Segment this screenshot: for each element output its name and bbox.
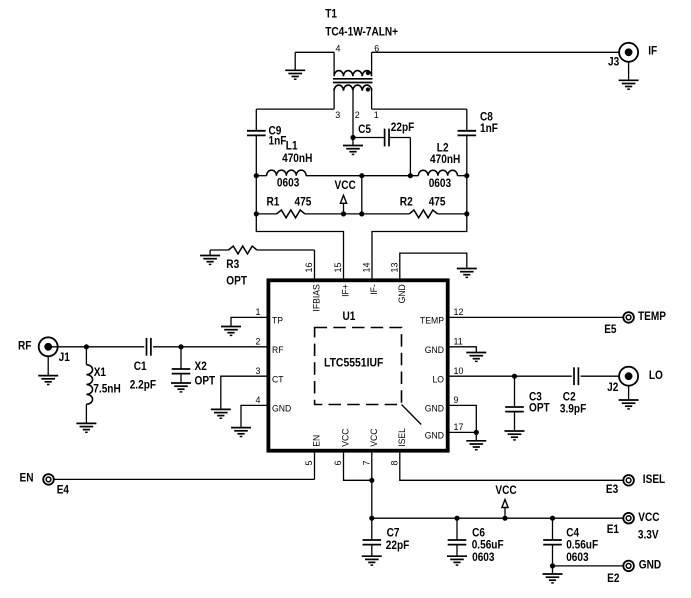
svg-text:17: 17 [454, 422, 464, 432]
svg-text:GND: GND [272, 403, 292, 413]
svg-text:OPT: OPT [195, 375, 216, 388]
svg-text:E4: E4 [57, 484, 70, 497]
svg-text:0603: 0603 [277, 177, 299, 190]
svg-text:7.5nH: 7.5nH [93, 383, 120, 396]
svg-text:C1: C1 [134, 360, 147, 373]
svg-text:475: 475 [429, 196, 446, 209]
svg-text:2.2pF: 2.2pF [130, 379, 157, 392]
svg-text:LTC5551IUF: LTC5551IUF [324, 357, 383, 370]
svg-text:X1: X1 [94, 366, 106, 379]
svg-text:16: 16 [304, 263, 314, 273]
svg-text:0603: 0603 [566, 551, 588, 564]
svg-text:VCC: VCC [638, 511, 659, 524]
svg-text:1: 1 [256, 307, 261, 317]
svg-text:L1: L1 [286, 140, 298, 153]
svg-text:0.56uF: 0.56uF [566, 539, 598, 552]
svg-text:12: 12 [454, 307, 464, 317]
svg-text:13: 13 [389, 263, 399, 273]
svg-text:6: 6 [333, 461, 343, 466]
svg-text:EN: EN [311, 435, 321, 447]
svg-text:EN: EN [20, 472, 34, 485]
svg-text:GND: GND [425, 403, 445, 413]
svg-text:OPT: OPT [529, 402, 550, 415]
svg-text:3.9pF: 3.9pF [560, 403, 587, 416]
svg-text:E5: E5 [604, 324, 616, 337]
svg-text:2: 2 [256, 336, 261, 346]
svg-text:R3: R3 [226, 258, 239, 271]
svg-text:VCC: VCC [340, 428, 350, 447]
svg-text:GND: GND [425, 430, 445, 440]
svg-text:VCC: VCC [334, 179, 355, 192]
svg-text:RF: RF [18, 340, 32, 353]
svg-text:TC4-1W-7ALN+: TC4-1W-7ALN+ [325, 26, 398, 39]
svg-text:IF: IF [648, 45, 657, 58]
svg-text:5: 5 [304, 461, 314, 466]
svg-text:X2: X2 [195, 360, 207, 373]
svg-text:E1: E1 [607, 523, 619, 536]
svg-text:LO: LO [649, 369, 663, 382]
svg-text:22pF: 22pF [386, 539, 410, 552]
svg-text:TEMP: TEMP [420, 315, 444, 325]
svg-text:IF-: IF- [369, 284, 379, 295]
svg-text:3.3V: 3.3V [638, 529, 659, 542]
svg-text:GND: GND [639, 559, 661, 572]
svg-text:LO: LO [432, 374, 444, 384]
svg-text:1nF: 1nF [480, 123, 498, 136]
svg-text:0.56uF: 0.56uF [472, 539, 504, 552]
svg-text:2: 2 [355, 110, 360, 120]
svg-text:ISEL: ISEL [643, 473, 666, 486]
svg-text:C5: C5 [358, 123, 371, 136]
svg-text:22pF: 22pF [391, 121, 415, 134]
svg-text:J3: J3 [608, 56, 619, 69]
svg-text:GND: GND [397, 284, 407, 304]
svg-text:470nH: 470nH [282, 152, 312, 165]
svg-text:J1: J1 [59, 351, 70, 364]
svg-text:RF: RF [272, 345, 284, 355]
svg-text:0603: 0603 [472, 551, 494, 564]
svg-text:C4: C4 [566, 527, 580, 540]
svg-text:15: 15 [333, 263, 343, 273]
svg-text:CT: CT [272, 374, 284, 384]
svg-text:R2: R2 [400, 196, 413, 209]
svg-text:VCC: VCC [495, 484, 516, 497]
svg-text:3: 3 [256, 366, 261, 376]
svg-text:14: 14 [361, 263, 371, 273]
svg-text:7: 7 [361, 461, 371, 466]
svg-text:TP: TP [272, 315, 283, 325]
svg-text:9: 9 [454, 395, 459, 405]
svg-text:C7: C7 [387, 527, 400, 540]
svg-text:VCC: VCC [369, 428, 379, 447]
svg-text:R1: R1 [267, 196, 280, 209]
svg-text:TEMP: TEMP [638, 310, 667, 323]
svg-text:1nF: 1nF [269, 135, 287, 148]
svg-text:GND: GND [425, 345, 445, 355]
svg-text:4: 4 [256, 395, 261, 405]
svg-text:ISEL: ISEL [397, 428, 407, 447]
svg-text:J2: J2 [607, 382, 618, 395]
svg-text:OPT: OPT [226, 275, 247, 288]
svg-text:E2: E2 [607, 572, 619, 585]
svg-text:1: 1 [374, 110, 379, 120]
svg-text:470nH: 470nH [430, 153, 460, 166]
svg-text:0603: 0603 [429, 178, 451, 191]
svg-text:475: 475 [295, 196, 312, 209]
svg-text:11: 11 [454, 336, 463, 346]
svg-text:4: 4 [336, 43, 341, 53]
svg-text:T1: T1 [325, 8, 337, 21]
svg-text:6: 6 [374, 43, 379, 53]
svg-text:3: 3 [335, 110, 340, 120]
svg-text:E3: E3 [606, 483, 618, 496]
svg-text:U1: U1 [343, 311, 356, 324]
svg-text:10: 10 [454, 366, 464, 376]
svg-text:IF+: IF+ [340, 284, 350, 297]
svg-text:IFBIAS: IFBIAS [311, 284, 321, 311]
svg-text:8: 8 [389, 461, 399, 466]
